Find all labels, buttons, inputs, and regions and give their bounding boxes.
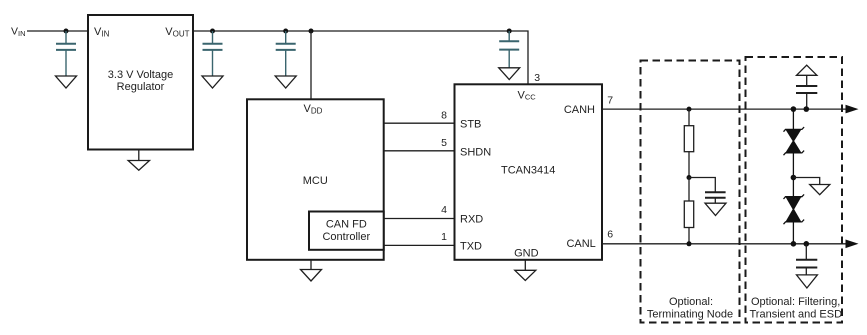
wire VIN input: [27, 30, 88, 32]
svg-text:STB: STB: [460, 119, 481, 131]
svg-text:Optional: Filtering,: Optional: Filtering,: [751, 296, 840, 308]
optional filtering dashed box: [746, 57, 843, 323]
CAN FD Controller sub-box: [309, 212, 384, 250]
wire STB: [384, 122, 455, 124]
ground (C7): [797, 275, 818, 288]
svg-text:Optional:: Optional:: [669, 296, 713, 308]
svg-text:8: 8: [441, 110, 447, 122]
ground (C3): [275, 76, 296, 88]
svg-text:Transient and ESD: Transient and ESD: [750, 309, 843, 321]
capacitor C3: [276, 31, 296, 76]
ground (regulator): [138, 150, 140, 161]
svg-text:SHDN: SHDN: [460, 147, 491, 159]
junction rail VDD: [309, 29, 314, 34]
svg-text:TCAN3414: TCAN3414: [501, 165, 555, 177]
capacitor C5 (split termination): [689, 178, 715, 193]
svg-text:7: 7: [607, 95, 613, 107]
wire RXD: [384, 218, 455, 220]
capacitor C7 (CANL filter): [805, 244, 807, 260]
junction rail VCC cap: [507, 29, 512, 34]
TVS D2 (bidirectional): [784, 178, 805, 244]
wire R2 to CANL: [688, 228, 690, 244]
svg-text:TXD: TXD: [460, 241, 482, 253]
wire VOUT rail: [193, 31, 528, 84]
svg-text:3: 3: [534, 72, 540, 84]
capacitor C6 (CANH filter): [806, 75, 808, 86]
junction CANH term: [687, 107, 692, 112]
wire VDD drop: [310, 31, 312, 99]
svg-text:GND: GND: [514, 248, 539, 260]
ground (TVS mid): [793, 178, 819, 185]
ground (input cap): [56, 76, 77, 88]
junction CANL term: [687, 241, 692, 246]
wire CANH bus: [602, 108, 846, 110]
junction CANL cap: [804, 241, 810, 247]
svg-text:Terminating Node: Terminating Node: [647, 309, 733, 321]
regulator U1: 3.3 V Voltage Regulator: [88, 15, 193, 150]
junction input node: [64, 29, 69, 34]
arrow CANH: [846, 105, 859, 114]
ground (C4): [499, 68, 520, 80]
ground (chassis up, CANH filter): [797, 65, 817, 75]
svg-text:5: 5: [441, 137, 447, 149]
svg-text:CAN FD: CAN FD: [326, 219, 367, 231]
svg-text:3.3 V Voltage: 3.3 V Voltage: [108, 69, 173, 81]
junction split termination: [687, 175, 692, 180]
transceiver U2 TCAN3414: [455, 84, 603, 259]
MCU box: [247, 99, 384, 259]
wire R1 to mid: [688, 152, 690, 178]
svg-text:RXD: RXD: [460, 214, 483, 226]
arrow CANL: [846, 240, 859, 249]
ground (MCU): [310, 260, 312, 270]
ground (C5): [705, 203, 726, 215]
wire SHDN: [384, 150, 455, 152]
wire to R1: [688, 109, 690, 126]
junction TVS mid: [791, 175, 797, 181]
svg-text:1: 1: [441, 231, 447, 243]
junction CANH cap: [804, 106, 810, 112]
svg-text:4: 4: [441, 204, 447, 216]
svg-text:Controller: Controller: [322, 231, 370, 243]
optional terminating node dashed box: [641, 61, 740, 323]
capacitor C2: [203, 31, 223, 76]
svg-text:6: 6: [607, 228, 613, 240]
junction rail B: [283, 29, 288, 34]
svg-text:Regulator: Regulator: [117, 81, 165, 93]
wire CANL bus: [602, 243, 846, 245]
svg-text:CANL: CANL: [566, 238, 595, 250]
ground (TCAN3414 GND): [524, 260, 526, 271]
junction CANL tvs: [791, 241, 797, 247]
junction CANH tvs: [791, 106, 797, 112]
ground (C2): [202, 76, 223, 88]
wire TXD: [384, 244, 455, 246]
TVS D1 (bidirectional): [784, 109, 805, 177]
capacitor C1: [56, 31, 76, 76]
resistor R2: [684, 201, 693, 228]
resistor R1: [684, 126, 693, 152]
wire mid to R2: [688, 178, 690, 202]
svg-text:CANH: CANH: [564, 104, 595, 116]
svg-text:MCU: MCU: [303, 175, 328, 187]
junction rail A: [210, 29, 215, 34]
capacitor C4 (VCC bypass): [499, 31, 519, 68]
